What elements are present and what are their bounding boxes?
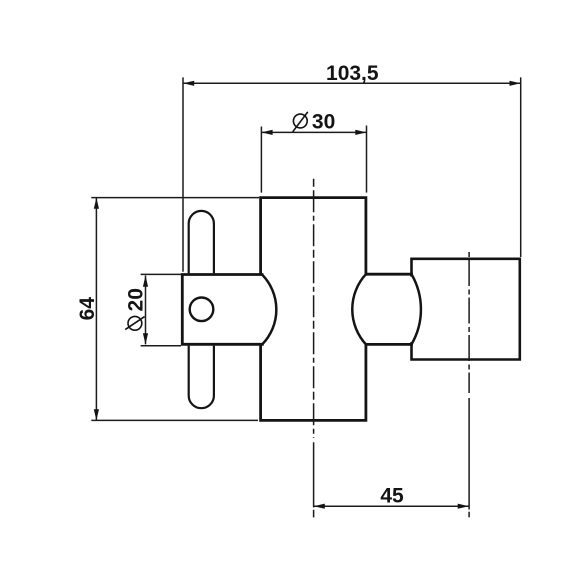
arm bottom line between cylinder and right block [365, 343, 414, 346]
pin / rod lower part (rounded bottom) [189, 346, 214, 409]
extension line right (cylinder right) [366, 126, 368, 193]
dimension d20 : dimension line [141, 274, 181, 345]
center line of right block (dash-dot) [468, 252, 470, 517]
dimension 64 : dimension line [91, 198, 259, 421]
hole circle in clamp block [190, 298, 214, 322]
arm top line between cylinder and right block [365, 273, 414, 276]
arrow top of d20 [143, 276, 148, 287]
extension line bottom (cylinder bottom) [91, 419, 258, 421]
arrow right of d30 [355, 130, 366, 135]
extension line top (cylinder top) [91, 197, 259, 199]
arrow left of d30 [261, 130, 272, 135]
arrow right of 103,5 [510, 81, 521, 86]
arrow bottom of 64 [94, 409, 99, 420]
main cylinder body (outline, d30 tube) [261, 198, 366, 421]
arrow bottom of d20 [143, 333, 148, 344]
pin / rod upper part (rounded top) [189, 211, 214, 273]
right block (wall holder end) [412, 259, 520, 360]
arrow top of 64 [94, 198, 99, 209]
svg-text:20: 20 [125, 288, 148, 311]
center line of main cylinder (dash-dot) [313, 179, 315, 518]
ball joint right arc [412, 274, 421, 344]
clamp block right spherical bulge arc [262, 275, 276, 345]
dimension d30 : dimension line [261, 126, 366, 193]
ball joint left arc [352, 274, 366, 344]
diameter symbol for 20 [125, 316, 144, 330]
svg-text:103,5: 103,5 [326, 62, 379, 85]
extension line right (block right edge) [520, 77, 522, 257]
extension line top (clamp top) [141, 273, 181, 275]
arrow left of 45 [314, 504, 325, 509]
arrow right of 45 [458, 504, 469, 509]
dimension 103,5 : dimension line [183, 77, 521, 271]
dimension 45 : dimension line [314, 505, 469, 507]
clamp block (slider body around d20 rail) [182, 275, 262, 345]
extension line left (cylinder left) [260, 127, 262, 193]
arrow left of 103,5 [183, 81, 194, 86]
extension line bottom (clamp bottom) [141, 345, 181, 347]
diameter symbol for 30 [293, 112, 308, 132]
svg-text:45: 45 [380, 484, 404, 507]
svg-text:30: 30 [312, 110, 335, 133]
svg-text:64: 64 [76, 297, 99, 321]
extension line left (clamp left edge) [182, 77, 184, 271]
